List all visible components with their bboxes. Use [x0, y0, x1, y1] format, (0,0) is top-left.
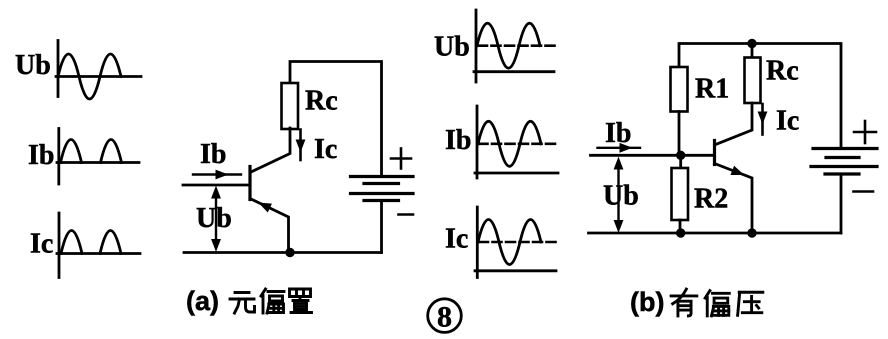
- svg-text:Ic: Ic: [30, 229, 53, 260]
- svg-text:Ub: Ub: [15, 50, 51, 81]
- svg-text:Ib: Ib: [445, 125, 471, 156]
- svg-text:Ic: Ic: [314, 134, 337, 165]
- svg-text:Ub: Ub: [434, 32, 470, 63]
- svg-text:Ub: Ub: [196, 203, 232, 234]
- svg-text:(a): (a): [186, 286, 219, 316]
- svg-text:R2: R2: [694, 184, 728, 215]
- svg-text:Rc: Rc: [305, 86, 338, 117]
- svg-text:R1: R1: [695, 74, 729, 105]
- svg-text:Ub: Ub: [603, 181, 639, 212]
- svg-text:Rc: Rc: [766, 56, 799, 87]
- svg-text:Ic: Ic: [445, 224, 468, 255]
- svg-text:Ib: Ib: [200, 139, 226, 170]
- svg-text:Ib: Ib: [28, 140, 54, 171]
- svg-text:(b): (b): [630, 287, 664, 317]
- svg-text:Ic: Ic: [776, 106, 799, 137]
- svg-text:Ib: Ib: [605, 118, 631, 149]
- svg-text:8: 8: [437, 300, 452, 333]
